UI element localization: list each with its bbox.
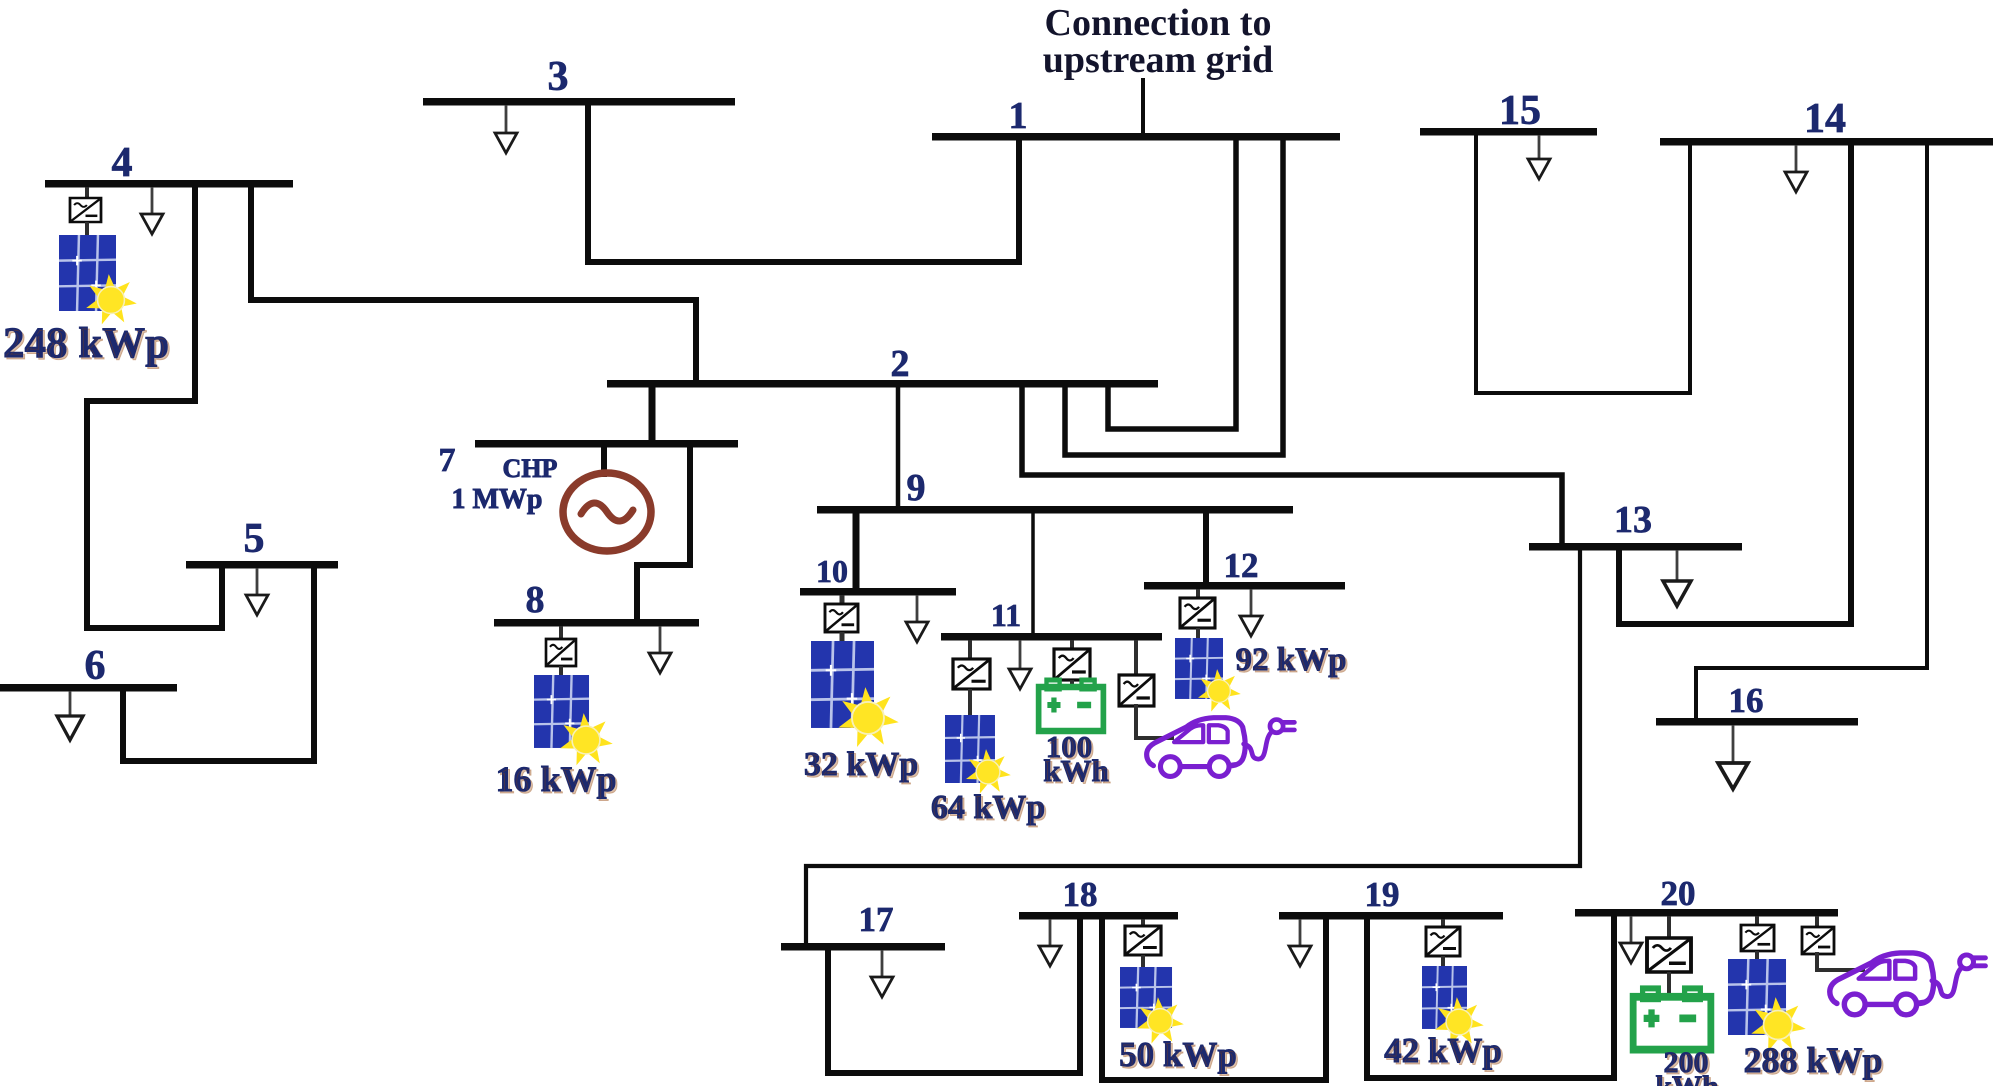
inverter bus 20 [1741,925,1774,951]
wire bus9 to bus12 stub [1203,512,1209,583]
wire battery inverter to battery stub bus11 [1070,680,1074,689]
wire bus9 to bus11 stub [1031,512,1035,634]
wire bus2 to bus13 feeder [1022,386,1562,544]
svg-text:14: 14 [1804,96,1846,142]
PV panel bus 20 [1728,959,1786,1035]
wire bus3 to bus1 link [588,104,1019,262]
wire EV inverter to car bus11 [1136,706,1172,738]
wire bus19 to inverter stub [1441,919,1445,928]
PV panel bus 18 [1120,967,1172,1028]
inverter bus 11 [953,659,990,689]
bus 18 busbar [1019,912,1178,920]
EV car bus 20 [1830,953,1986,1015]
PV panel bus 19 [1422,966,1467,1029]
EV inverter bus 11 [1119,675,1154,706]
svg-text:7: 7 [439,442,456,479]
PV panel bus 11 [945,715,995,783]
wire bus5 to bus6 link [123,567,314,761]
PV panel bus 8 [534,675,589,748]
svg-text:92 kWp: 92 kWp [1236,642,1347,678]
svg-text:16: 16 [1729,681,1764,720]
svg-text:20: 20 [1661,874,1696,913]
wire inverter to PV stub bus19 [1441,956,1445,967]
svg-text:kWh: kWh [1655,1070,1719,1086]
svg-text:17: 17 [859,900,894,939]
wire upstream to bus 1 [1141,80,1145,133]
svg-text:4: 4 [112,140,133,186]
wire bus18 to inverter stub [1141,919,1145,927]
bus 6 busbar [0,684,177,692]
bus 20 busbar [1575,909,1838,917]
bus 10 busbar [800,588,956,596]
svg-text:15: 15 [1499,88,1541,134]
wire bus11 to battery inverter stub [1070,640,1074,650]
load arrow bus 11 [1009,640,1031,689]
wire bus20 to PV inverter stub [1755,916,1759,926]
svg-text:32 kWp: 32 kWp [804,746,918,783]
svg-text:11: 11 [991,597,1021,633]
load arrow bus 14 [1785,145,1807,192]
svg-text:16 kWp: 16 kWp [495,759,616,799]
svg-text:1: 1 [1009,95,1028,137]
wire EV inverter to car bus20 [1817,954,1863,970]
svg-text:13: 13 [1614,499,1652,541]
wire inverter to PV stub bus4 [85,222,89,236]
bus 1 busbar [932,133,1340,141]
bus 4 busbar [45,180,293,188]
wire bus10 to inverter stub [840,595,845,605]
svg-text:2: 2 [891,343,910,385]
bus 3 busbar [423,98,735,106]
wire bus4 to bus2 link [251,186,696,381]
wire bus12 to inverter stub [1196,589,1200,599]
svg-text:1 MWp: 1 MWp [452,484,543,515]
wire inverter to PV stub bus18 [1141,955,1145,968]
wire bus7 CHP stub [601,446,607,474]
sun icon bus 12 [1198,669,1241,712]
wire bus13 to bus14 link [1619,144,1851,624]
wire bus20 to battery inverter stub [1667,916,1671,939]
battery bus 11 [1039,680,1104,731]
load arrow bus 16 [1718,725,1748,789]
bus 8 busbar [494,619,699,627]
bus 11 busbar [941,633,1162,641]
load arrow bus 12 [1240,589,1262,636]
bus 12 busbar [1144,582,1345,590]
wire bus4 to bus5 link [87,186,222,628]
sun icon bus 10 [838,687,898,747]
PV panel bus 10 [811,641,874,728]
wire bus9 to bus10 stub [853,512,860,589]
sun icon bus 18 [1137,997,1184,1043]
svg-text:6: 6 [85,643,106,689]
wire bus17 to bus18 link [828,918,1080,1073]
CHP generator circle bus 7 [563,473,651,551]
svg-text:12: 12 [1224,546,1259,585]
wire inverter to PV stub bus12 [1196,628,1200,639]
sun icon bus 19 [1435,997,1484,1045]
svg-text:18: 18 [1063,875,1098,914]
svg-text:upstream grid: upstream grid [1043,39,1273,81]
sun icon bus 20 [1751,997,1805,1051]
inverter bus 12 [1180,598,1215,628]
wire bus1 to bus2 hook A [1108,139,1236,429]
sun icon bus 11 [966,749,1011,793]
svg-text:CHP: CHP [503,454,558,483]
load arrow bus 19 [1289,919,1311,966]
wire inverter to PV stub bus8 [559,666,563,676]
wire bus4 to inverter stub [85,187,89,199]
inverter bus 4 [70,198,101,222]
inverter bus 19 [1426,927,1460,956]
wire battery inverter to battery stub bus20 [1667,972,1671,998]
bus 19 busbar [1279,912,1503,920]
svg-text:Connection to: Connection to [1045,2,1272,44]
wire bus13 to bus17 feeder [806,549,1580,944]
wire bus1 to bus2 hook B [1065,139,1283,455]
bus 2 busbar [607,380,1158,388]
bus 7 busbar [475,440,738,448]
svg-text:50 kWp: 50 kWp [1119,1035,1237,1074]
wire bus18 to bus19 link [1102,918,1326,1080]
svg-text:19: 19 [1365,875,1400,914]
PV panel bus 4 [59,235,116,311]
load arrow bus 3 [495,105,517,153]
EV inverter bus 20 [1802,927,1834,954]
load arrow bus 15 [1528,135,1550,179]
load arrow bus 8 [649,626,671,673]
svg-text:288 kWp: 288 kWp [1743,1040,1882,1080]
wire inverter to PV stub bus11 [968,689,972,716]
svg-text:42 kWp: 42 kWp [1384,1031,1502,1070]
bus 5 busbar [186,561,338,569]
load arrow bus 5 [246,568,268,615]
load arrow bus 20 [1620,916,1642,963]
wire bus19 to bus20 link [1367,915,1614,1078]
svg-text:5: 5 [244,516,265,562]
svg-text:248 kWp: 248 kWp [3,320,169,367]
wire bus2 to bus9 stub [896,386,901,507]
svg-text:8: 8 [526,579,545,621]
svg-text:10: 10 [816,553,848,589]
inverter bus 8 [546,639,576,666]
wire bus8 to inverter stub [559,626,563,640]
wire inverter to PV stub bus10 [840,632,845,642]
battery bus 20 [1633,988,1711,1049]
load arrow bus 4 [141,187,163,234]
inverter bus 10 [825,604,858,632]
load arrow bus 13 [1663,550,1691,606]
load arrow bus 6 [57,691,83,740]
bus 16 busbar [1656,718,1858,726]
wire bus2 to bus7 stub [649,386,656,441]
svg-text:64 kWp: 64 kWp [931,789,1045,826]
svg-text:9: 9 [907,467,926,509]
bus 14 busbar [1660,138,1993,146]
bus 15 busbar [1420,128,1597,136]
load arrow bus 10 [906,595,928,642]
PV panel bus 12 [1175,638,1223,699]
battery inverter bus 11 [1054,649,1090,680]
wire bus20 to EV inverter stub [1815,916,1819,928]
load arrow bus 17 [871,950,893,997]
battery inverter bus 20 [1647,938,1691,972]
svg-text:kWh: kWh [1043,753,1108,788]
svg-text:3: 3 [548,54,569,100]
wire bus14 to bus16 link [1696,144,1927,719]
sun icon bus 8 [560,713,612,765]
EV car bus 11 [1147,718,1295,777]
wire bus7 to bus8 link [637,446,690,620]
inverter bus 18 [1125,926,1161,955]
bus 13 busbar [1529,543,1742,551]
bus 17 busbar [781,943,945,951]
wire bus15 to bus14 link [1476,134,1690,393]
bus 9 busbar [817,506,1293,514]
sun icon bus 4 [86,274,137,324]
wire inverter to PV stub bus20 [1755,951,1759,960]
wire bus11 to EV inverter stub [1134,640,1138,676]
load arrow bus 18 [1039,919,1061,966]
wire bus11 to inverter stub [968,640,972,660]
